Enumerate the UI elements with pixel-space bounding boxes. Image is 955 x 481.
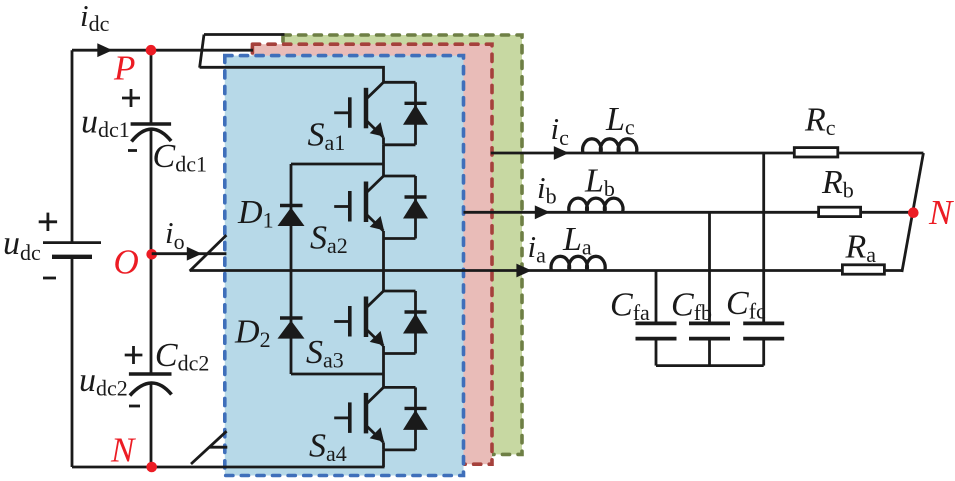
inductor Lb	[569, 198, 623, 212]
wire: bottom N rail	[72, 466, 385, 469]
node N right	[908, 207, 919, 218]
wire: phase b output line	[464, 211, 819, 214]
node O	[146, 249, 157, 260]
plus sign Cdc1	[122, 89, 140, 107]
svg-text:Cdc2: Cdc2	[155, 337, 209, 376]
svg-text:idc: idc	[80, 0, 110, 36]
wire: left vertical (dc source bottom)	[71, 257, 74, 467]
inductor La	[551, 256, 605, 270]
wire: J1 horizontal	[291, 163, 384, 166]
wire: leg top wire	[200, 67, 384, 82]
diode antiparallel Sa4	[384, 387, 429, 450]
svg-text:udc2: udc2	[79, 362, 128, 401]
battery plus sign	[39, 213, 57, 231]
svg-text:ib: ib	[537, 170, 557, 209]
wire: clamp column	[290, 164, 293, 374]
wire: Sa4 emitter to N rail	[382, 450, 385, 467]
svg-text:ic: ic	[551, 111, 570, 150]
wire: right slant to N	[902, 153, 924, 272]
transistor Sa1	[334, 82, 415, 145]
capacitor Cfa	[636, 323, 677, 365]
minus sign Cdc1	[128, 149, 137, 152]
wire: J2 horizontal	[291, 373, 384, 376]
resistor Rb	[819, 207, 861, 216]
diode antiparallel Sa2	[384, 176, 429, 239]
wire: Rc to right corner	[838, 152, 924, 155]
wire: O output with arrow	[152, 252, 227, 255]
arrow i_c	[554, 146, 569, 160]
wire: middle rail Cdc2 to N	[150, 383, 153, 467]
arrow i_b	[535, 205, 550, 219]
svg-text:O: O	[114, 243, 139, 282]
wire: middle rail Cdc1 to Cdc2	[150, 130, 153, 374]
wire: left vertical (dc source top)	[71, 50, 74, 242]
resistor Rc	[794, 148, 838, 157]
resistor Ra	[842, 265, 884, 274]
wire: N bus stub	[209, 446, 227, 449]
inductor Lc	[583, 139, 637, 153]
wire: phase c output line	[491, 152, 795, 155]
wire: capacitor common bus	[656, 364, 764, 367]
capacitor Cdc1 plate	[131, 122, 172, 126]
wire: Cfa tap	[655, 271, 658, 322]
wire: Cfc tap	[762, 153, 765, 322]
capacitor Cdc2 plate	[129, 372, 172, 376]
diode antiparallel Sa1	[384, 82, 429, 145]
svg-text:Lc: Lc	[605, 101, 635, 140]
phase leg box A (blue, front)	[225, 56, 464, 476]
transistor Sa2	[334, 176, 415, 239]
phase leg box C (green, back)	[283, 35, 522, 454]
diode antiparallel Sa3	[384, 291, 429, 354]
wire: middle rail P to Cdc1	[150, 50, 153, 124]
svg-text:N: N	[110, 431, 136, 470]
battery minus sign	[43, 277, 56, 280]
svg-text:udc: udc	[3, 225, 41, 265]
svg-text:La: La	[562, 221, 592, 260]
phase leg box B (pink, middle)	[252, 44, 492, 464]
svg-text:ia: ia	[528, 229, 547, 268]
capacitor Cdc1 curved plate	[132, 129, 172, 141]
wire: Ra to slant	[884, 269, 902, 272]
arrow i_dc	[97, 43, 112, 57]
capacitor Cfb	[689, 323, 730, 365]
wire: Sa2 emitter to Sa3	[382, 239, 385, 292]
battery u_dc plate long	[43, 241, 101, 244]
arrow i_o	[187, 247, 202, 261]
svg-text:Lb: Lb	[584, 163, 615, 202]
wire: J2 rail	[382, 354, 385, 388]
arrow i_a	[516, 264, 531, 278]
svg-text:udc1: udc1	[81, 104, 130, 143]
svg-text:Cfc: Cfc	[726, 285, 766, 324]
svg-text:Cdc1: Cdc1	[153, 138, 207, 177]
minus sign Cdc2	[129, 405, 140, 408]
transistor Sa3	[334, 291, 415, 354]
svg-text:Rb: Rb	[821, 164, 854, 203]
svg-text:P: P	[113, 49, 135, 88]
plus sign Cdc2	[125, 346, 143, 364]
capacitor Cdc2 curved plate	[130, 383, 172, 396]
wire: N bus slant	[191, 431, 227, 464]
wire: Cfb tap	[708, 212, 711, 321]
wire: phase a output line	[190, 269, 843, 272]
wire: top bus back line	[204, 33, 285, 36]
node N left	[146, 462, 157, 473]
svg-text:Ra: Ra	[845, 229, 877, 268]
wire: top bus slant	[200, 35, 204, 68]
svg-text:Cfa: Cfa	[610, 287, 650, 326]
svg-text:Rc: Rc	[804, 102, 836, 141]
node P	[146, 45, 157, 56]
wire: O bus slant	[190, 235, 227, 271]
wire: J1 rail	[382, 145, 385, 176]
wire: Rb to node N	[861, 211, 914, 214]
diode D2	[278, 318, 305, 339]
transistor Sa4	[334, 387, 415, 450]
capacitor Cfc	[743, 323, 784, 365]
wire: top P rail	[72, 49, 253, 52]
diode D1	[278, 206, 305, 227]
svg-text:io: io	[165, 215, 185, 254]
battery u_dc plate short	[52, 255, 92, 259]
svg-text:N: N	[928, 193, 954, 232]
svg-text:Cfb: Cfb	[671, 287, 712, 326]
